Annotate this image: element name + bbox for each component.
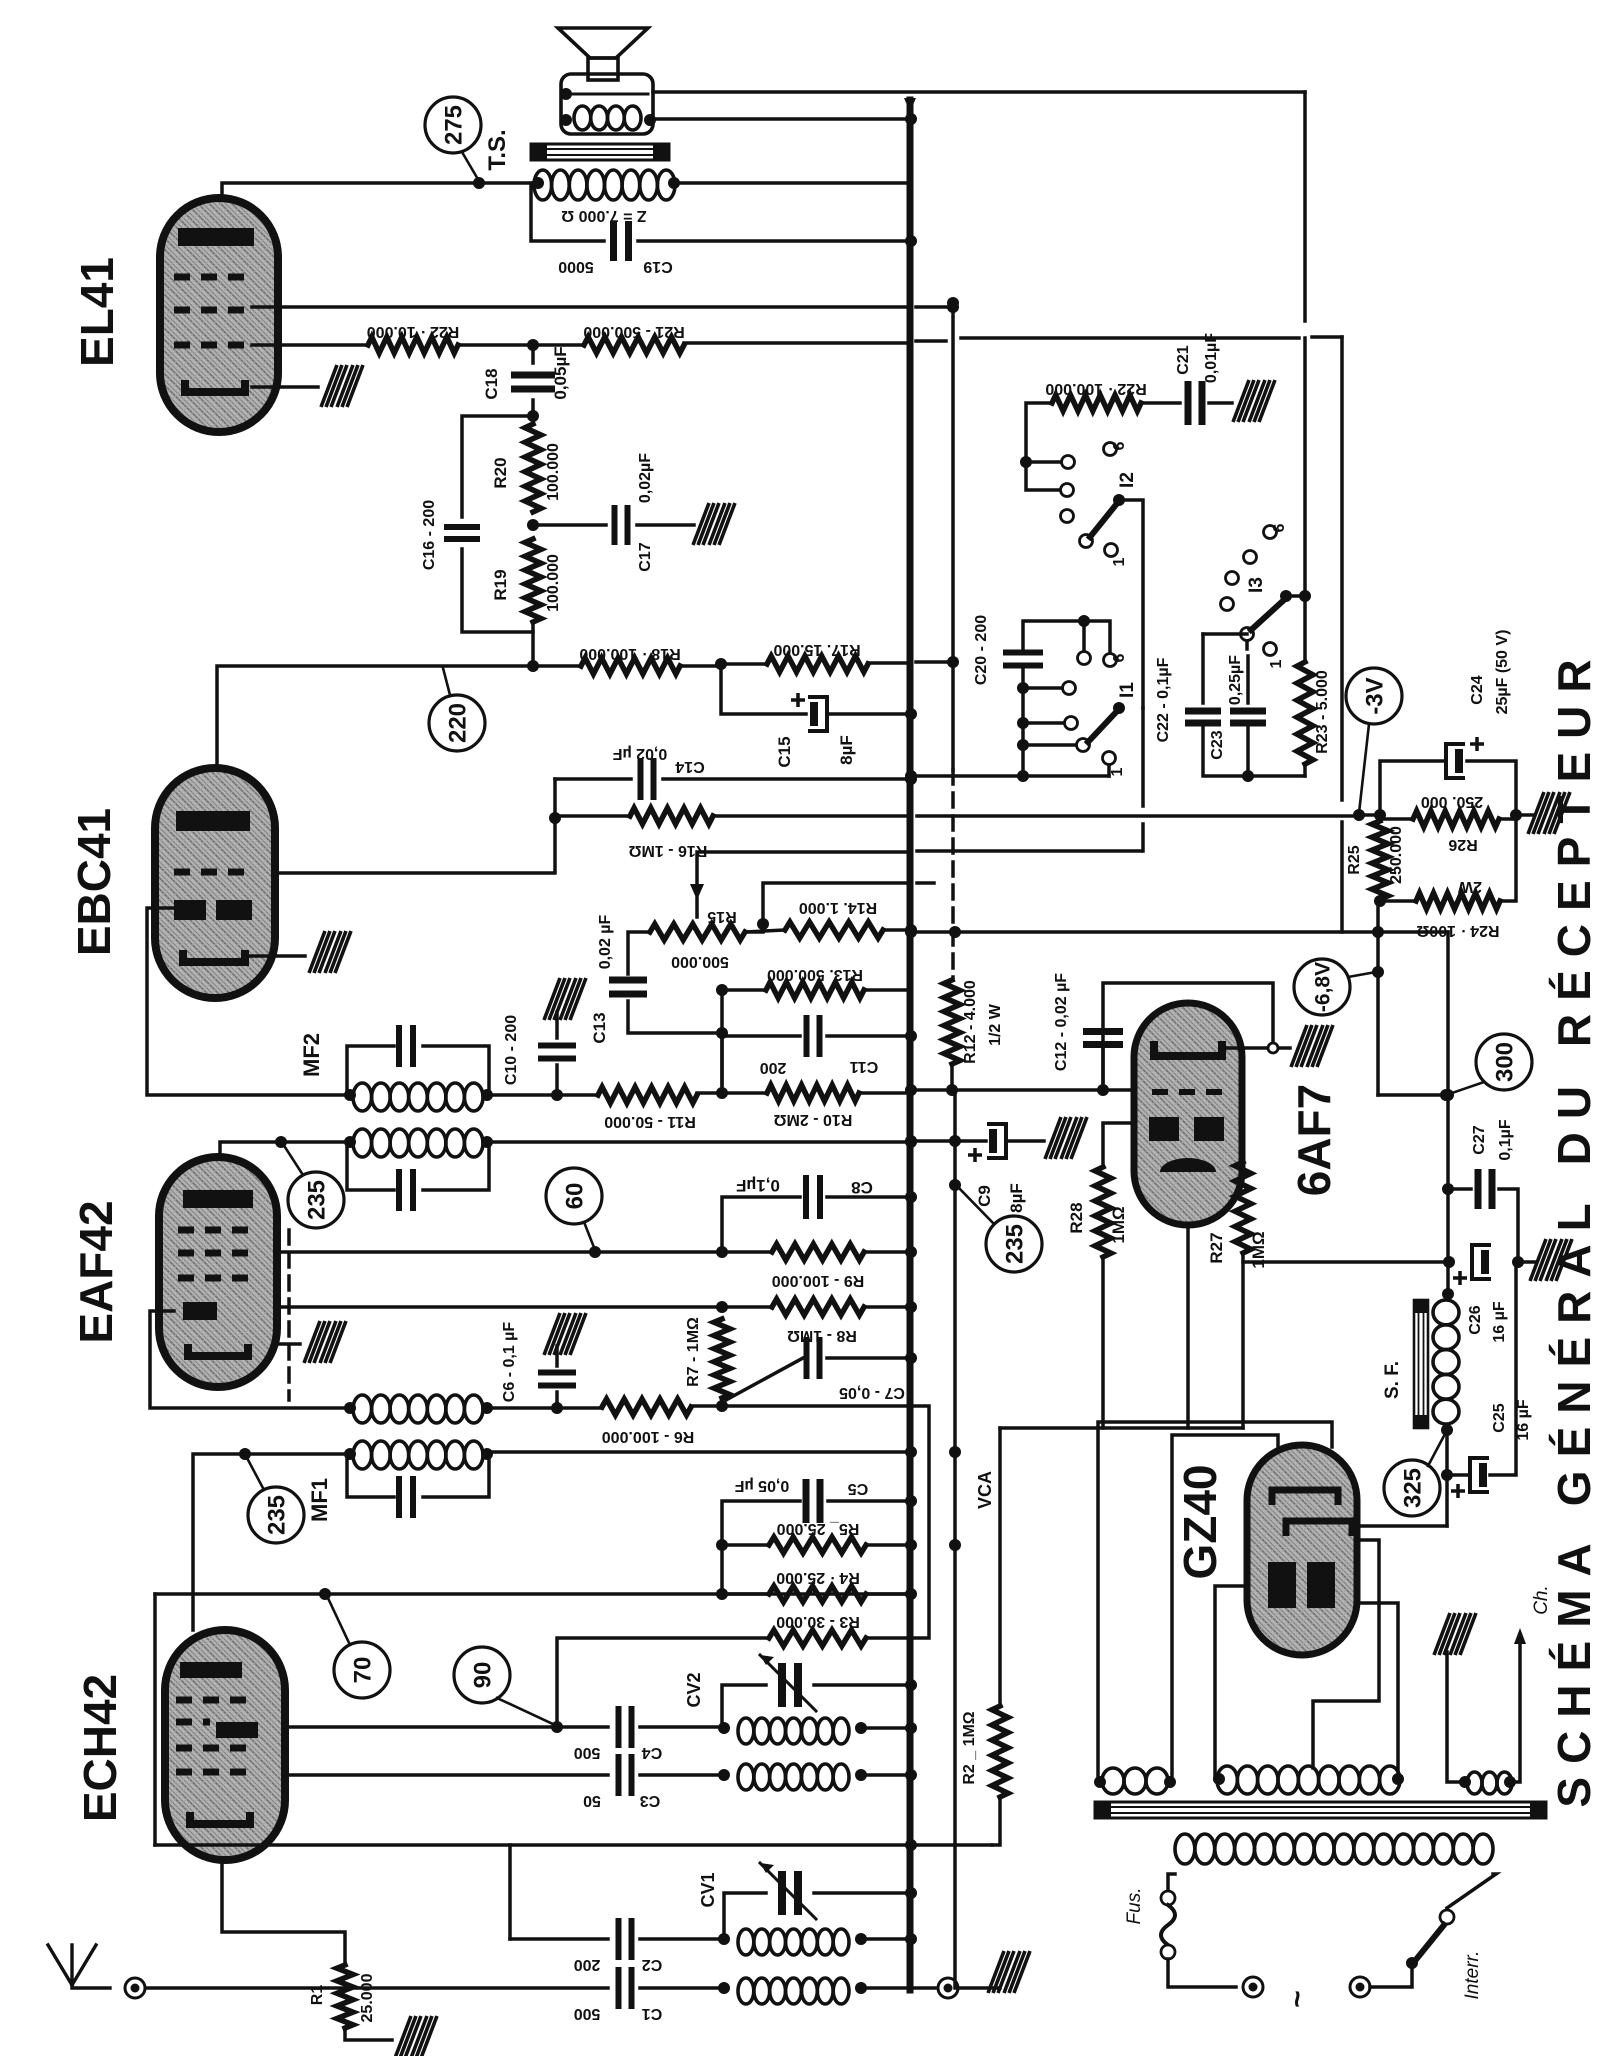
svg-text:R12 - 4.000: R12 - 4.000 [962,980,979,1064]
ground heater winding [1447,1652,1465,1782]
wire plate to ground [1222,1046,1290,1050]
chassis terminal [938,1978,958,1998]
capacitor C21 0,01uF [1185,381,1192,425]
resistor R28 1M [1103,1123,1134,1167]
svg-text:16 µF: 16 µF [1515,1399,1532,1440]
output transformer primary winding Z=7000 [534,170,552,200]
capacitor C4 500 [616,1706,622,1748]
wire corner to bias network [1340,337,1344,800]
resistor R14 1.000 [785,922,883,938]
oscillator coupling coil [738,1764,754,1790]
svg-text:EBC41: EBC41 [68,808,120,956]
svg-text:CV1: CV1 [698,1872,718,1907]
resistor R1 25.000 with ground [222,1860,345,1965]
svg-text:0,02 µF: 0,02 µF [597,914,614,969]
box top with C24 [1380,761,1444,815]
svg-text:6: 6 [1271,523,1288,532]
svg-text:1: 1 [1268,659,1285,668]
svg-text:C10 - 200: C10 - 200 [503,1015,520,1085]
svg-text:235: 235 [1002,1224,1029,1264]
capacitor C19 5000 [531,183,604,241]
svg-text:90: 90 [470,1662,497,1689]
svg-text:6: 6 [1111,441,1128,450]
wire bias row 816 from R16 to -3V node [917,814,1359,818]
node 325 circle [1384,1460,1440,1516]
IF transformer MF2 primary tank [353,1129,372,1157]
svg-text:C23: C23 [1209,730,1226,759]
ground filter rail [1518,1260,1536,1264]
svg-text:25µF (50 V): 25µF (50 V) [1494,630,1511,715]
wire EAF42 cathode to ground [277,1342,300,1346]
antenna coupling coil [738,1978,754,2004]
wire GZ40 cathode to S.F. [1356,1524,1447,1528]
wire EL41 screen grid [252,305,906,309]
capacitor C2 200 [510,1937,608,1941]
svg-text:Z = 7.000 Ω: Z = 7.000 Ω [561,207,646,224]
wire EBC41 cathode to ground [250,954,305,958]
heater winding radio tubes [1467,1772,1482,1794]
wire I1 down to wiper row [1141,708,1145,806]
node 235 voltage circle near EAF42 [288,1172,344,1228]
resistor R17 15.000 [767,656,868,672]
svg-text:300: 300 [1492,1042,1519,1082]
wire EAF42 anode to MF2 primary [220,1142,347,1157]
wire EAF42 diode to MF1 secondary [150,1311,347,1408]
resistor R18 100.000 [581,658,680,674]
resistor R27 1M [1240,1123,1243,1162]
node 60 voltage circle [546,1168,602,1224]
wire MF1 secondary to R6 [489,1406,602,1410]
output transformer T.S. core [531,144,669,160]
capacitor C25 16uF electrolytic [1445,1430,1449,1526]
VCA line [998,1428,1002,1706]
capacitor C16-200 [444,524,480,530]
svg-text:0,02µF: 0,02µF [637,453,654,503]
node 300 circle [1476,1034,1532,1090]
svg-text:R4 · 25.000: R4 · 25.000 [776,1569,860,1586]
wire speaker top to right vertical [653,90,1305,94]
node 235 voltage circle near C9 [986,1216,1042,1272]
svg-text:R15: R15 [707,908,736,925]
HV winding left lead [1215,1586,1247,1779]
switch I3 contacts [1264,526,1277,539]
svg-text:C3: C3 [640,1792,661,1809]
wire MF2 primary to bus [489,1140,911,1144]
wire speaker coil to bus [653,117,911,121]
svg-text:ECH42: ECH42 [74,1674,126,1822]
svg-text:Interr.: Interr. [1462,1951,1483,2000]
resistor R25 250.000 [1372,821,1388,899]
svg-text:25.000: 25.000 [359,1973,376,2022]
svg-text:I2: I2 [1117,472,1138,488]
resistor R2 1M AVC return [992,1797,1000,1845]
svg-text:6AF7: 6AF7 [1288,1084,1340,1196]
svg-text:C16 - 200: C16 - 200 [421,500,438,570]
right vertical feed wire [1303,92,1307,321]
HV secondary winding [1217,1766,1237,1794]
node -3V circle [1346,668,1402,724]
wire C2 branch [508,1845,512,1939]
wire 300V rail [1378,1093,1448,1097]
svg-text:60: 60 [562,1183,589,1210]
resistor R22 10.000 [368,337,458,353]
svg-text:GZ40: GZ40 [1174,1464,1226,1579]
node 275 voltage circle [425,97,481,153]
wire EL41 cathode to ground [252,385,318,389]
svg-text:16 µF: 16 µF [1491,1301,1508,1342]
svg-text:R23 - 5.000: R23 - 5.000 [1314,670,1331,754]
wire EAF42 g3 row [277,1305,722,1309]
wire EBC41 anode row [217,666,581,768]
svg-text:1: 1 [1111,557,1128,566]
svg-text:235: 235 [264,1495,291,1535]
svg-text:2W: 2W [1457,878,1482,895]
svg-text:R27: R27 [1207,1232,1226,1263]
svg-text:200: 200 [760,1059,787,1076]
svg-text:100.000: 100.000 [545,554,562,612]
wire screen feed 932 [911,930,1448,934]
svg-text:MF2: MF2 [299,1033,324,1077]
wire MF1 primary to oscillator grid row [489,1450,911,1454]
svg-text:I3: I3 [1246,577,1267,593]
tube EAF42 diode pentode [159,1157,277,1387]
svg-text:R10 - 2MΩ: R10 - 2MΩ [774,1111,853,1128]
resistor R26 250.000 [1413,811,1499,827]
node 6,8V circle [1294,959,1350,1015]
svg-text:C20 - 200: C20 - 200 [973,615,990,685]
fuse Fus. [1168,1874,1175,1890]
svg-text:R21 - 500.000: R21 - 500.000 [583,323,685,340]
svg-text:500: 500 [574,2005,601,2022]
svg-text:C26: C26 [1467,1305,1484,1334]
svg-text:S. F.: S. F. [1382,1361,1403,1399]
heater line vertical x953 [951,303,955,770]
switch I2 contacts [1020,456,1032,468]
svg-text:R17. 15.000: R17. 15.000 [773,641,860,658]
svg-text:C25: C25 [1491,1403,1508,1432]
svg-text:C12 - 0,02 µF: C12 - 0,02 µF [1053,973,1070,1071]
svg-text:VCA: VCA [975,1471,995,1509]
resistor R9 100.000 [772,1244,864,1260]
chassis arrow Ch. [1510,1640,1520,1782]
node 235 voltage circle near MF1 [248,1487,304,1543]
svg-text:250. 000: 250. 000 [1421,793,1483,810]
wire GZ40 anode loop A [1172,1435,1278,1782]
capacitor C7 0,05 diagonal feed [726,1358,803,1400]
wire I2 to I1 [1119,500,1143,708]
svg-text:0,05µF: 0,05µF [551,346,570,399]
loudspeaker [558,28,648,58]
ground EL41 cathode [321,365,363,407]
mains plug terminals [1243,1977,1263,1997]
antenna input [48,1945,110,1988]
ground chassis [988,1951,1030,1993]
svg-text:C24: C24 [1469,675,1486,704]
resistor R5 25.000 [769,1537,866,1553]
svg-text:I1: I1 [1117,682,1138,698]
HV winding right lead [1356,1603,1398,1779]
svg-text:8µF: 8µF [837,735,856,765]
capacitor C3 50 [616,1754,622,1796]
feedback network box R20 R19 C16 [462,416,533,517]
wire 6AF7 grid row [911,1088,1134,1092]
ground C17 [693,503,735,545]
svg-text:200: 200 [574,1956,601,1973]
resistor R8 1M [772,1299,864,1315]
svg-text:0,05 µF: 0,05 µF [734,1477,789,1494]
svg-text:500: 500 [574,1744,601,1761]
svg-text:-3V: -3V [1362,677,1389,714]
resistor R12 4.000 1/2W heater dropper [944,980,960,1064]
speaker frame box [561,74,653,134]
heater winding GZ40 [1102,1768,1124,1794]
svg-text:1MΩ: 1MΩ [1109,1206,1128,1243]
svg-text:SCHÉMA GÉNÉRAL DU RÉCEPTEUR: SCHÉMA GÉNÉRAL DU RÉCEPTEUR [1548,646,1600,1807]
resistor R11 50.000 [598,1087,697,1103]
wire R3 row to C4 node [557,1638,769,1727]
svg-text:T.S.: T.S. [484,129,511,170]
svg-text:R6 - 100.000: R6 - 100.000 [602,1428,695,1445]
resistor R19 100.000 [525,539,541,622]
resistor R23 5.000 [1303,596,1307,662]
capacitor C17 0,02uF to ground [533,523,606,527]
svg-text:C22 - 0,1µF: C22 - 0,1µF [1155,657,1172,742]
svg-text:Fus.: Fus. [1124,1888,1145,1925]
svg-text:C17: C17 [637,542,654,571]
svg-text:R11 - 50.000: R11 - 50.000 [604,1113,696,1130]
antenna tuned coil [738,1929,754,1955]
resistor R22 100.000 tone [1026,403,1052,462]
HV winding centre tap [1313,1540,1379,1768]
svg-text:C6 - 0,1 µF: C6 - 0,1 µF [501,1322,518,1403]
resistor R13 500.000 [722,988,766,992]
svg-text:R2 _ 1MΩ: R2 _ 1MΩ [961,1711,978,1784]
switch I2 arm [1090,501,1119,537]
wire EAF42 screen row with 60 volts [277,1250,595,1254]
svg-text:100.000: 100.000 [545,443,562,501]
IF transformer MF1 secondary tank [353,1395,372,1423]
main HT bus line [907,100,914,1990]
wire EL41 anode to output transformer [222,183,531,198]
capacitor C9 8uF [911,1139,986,1143]
svg-text:C13: C13 [590,1012,609,1043]
switch Interr. [1447,1874,1496,1908]
B+ 235 distribution line [953,1090,957,1988]
svg-text:C15: C15 [775,736,794,767]
svg-text:R19: R19 [491,569,510,600]
ground C21 [1233,380,1275,422]
wire EL41 control grid row [252,343,368,347]
ground C9 [1045,1117,1087,1159]
svg-text:0,01µF: 0,01µF [1203,333,1220,383]
capacitor C13 0,02uF [628,932,650,974]
svg-text:C21: C21 [1175,345,1192,374]
svg-text:0,02 µF: 0,02 µF [612,745,667,762]
capacitor C6 0,1uF to ground [544,1313,586,1355]
resistor R24 100 ohm 2W [1416,893,1500,909]
svg-text:C8: C8 [851,1178,873,1197]
svg-text:-6,8V: -6,8V [1312,962,1335,1012]
svg-text:C9: C9 [975,1185,994,1207]
node 90 voltage circle [454,1647,510,1703]
tube ECH42 top anode wire [193,1454,347,1630]
capacitor C1 500 [146,1986,608,1990]
svg-text:1: 1 [1109,767,1126,776]
volume control network: wire wiper row [697,852,911,917]
resistor R3 30.000 [769,1630,866,1646]
svg-text:8µF: 8µF [1007,1183,1026,1213]
capacitor C11 200 [722,1036,800,1093]
svg-text:R7 - 1MΩ: R7 - 1MΩ [685,1317,702,1387]
svg-text:~: ~ [1281,1990,1314,2008]
svg-text:R3 - 30.000: R3 - 30.000 [776,1613,860,1630]
mains primary winding [1175,1834,1195,1864]
wire 6AF7 plate loop [1103,983,1273,1090]
svg-text:MF1: MF1 [307,1478,332,1522]
svg-text:275: 275 [441,105,468,145]
wire grid bias line to -3V supply [684,341,906,345]
capacitor C14 0,02uF [555,777,631,781]
svg-text:R13. 500.000: R13. 500.000 [767,966,863,983]
svg-text:235: 235 [304,1180,331,1220]
tube 6AF7 magic eye [1134,1003,1242,1225]
svg-text:C1: C1 [642,2005,663,2022]
svg-text:R20: R20 [491,457,510,488]
wire EBC41 grid coupling row [274,779,555,873]
wire ECH42 triode grid to C4 [285,1725,608,1729]
svg-text:325: 325 [1400,1468,1427,1508]
wire 815 into box [1359,813,1380,817]
mains transformer core [1095,1802,1546,1818]
svg-text:6: 6 [1111,653,1128,662]
svg-text:0,25µF: 0,25µF [1227,655,1244,705]
capacitor C24 25uF 50V electrolytic [1446,744,1465,778]
node 70 voltage circle [334,1642,390,1698]
wire R24 junction down [1376,901,1380,1095]
oscillator coil [738,1718,754,1744]
svg-text:EL41: EL41 [71,257,123,367]
potentiometer R15 500.000 [650,924,745,940]
svg-text:C7 - 0,05: C7 - 0,05 [839,1384,905,1401]
switch I3 arm [1251,599,1285,630]
wire EBC41 diode to MF2 secondary [147,908,347,1095]
svg-text:C19: C19 [643,258,672,275]
svg-text:C11: C11 [850,1058,879,1075]
filter choke S.F. [1414,1300,1428,1428]
dashed internal shield line [287,1230,291,1400]
svg-text:C18: C18 [482,368,501,399]
svg-text:5000: 5000 [558,258,594,275]
svg-text:C27: C27 [1471,1125,1488,1154]
svg-text:C5: C5 [848,1480,869,1497]
svg-text:C2: C2 [642,1956,663,1973]
svg-text:R22 · 10.000: R22 · 10.000 [367,323,460,340]
resistor R20 100.000 [525,424,541,512]
capacitor C8 0,1uF [722,1197,800,1252]
wire transformer to bus [675,181,911,185]
svg-text:EAF42: EAF42 [70,1200,122,1343]
resistor R7 1M grid leak [714,1319,730,1398]
speaker voice coil [574,106,591,130]
svg-text:500.000: 500.000 [671,953,729,970]
svg-text:1/2 W: 1/2 W [987,1003,1004,1046]
tube ECH42 triode hexode [165,1630,285,1860]
svg-text:CV2: CV2 [684,1672,704,1707]
svg-text:R18 · 100.000: R18 · 100.000 [579,645,681,662]
svg-text:0,1µF: 0,1µF [1497,1119,1514,1160]
switch I1 arm [1088,709,1119,742]
resistor R4 25.000 [769,1586,866,1602]
svg-text:220: 220 [445,703,472,743]
resistor R16 1M [555,814,630,818]
wire 6AF7 cathode rail [1000,1426,1243,1430]
capacitor C15 8uF cathode bypass [721,664,806,714]
svg-text:R26: R26 [1448,836,1477,853]
svg-text:250.000: 250.000 [1388,826,1405,884]
svg-text:0,1µF: 0,1µF [736,1176,780,1195]
svg-text:C14: C14 [675,758,704,775]
node 220 voltage circle [429,695,485,751]
tube EL41 pentode [160,198,278,432]
AVC bracket wire around bus [911,1406,929,1638]
svg-text:R5_ 25.000: R5_ 25.000 [777,1520,860,1537]
tube EBC41 double diode triode [155,768,275,998]
resistor stack row C5 [722,1501,800,1545]
svg-text:R28: R28 [1067,1202,1086,1233]
svg-text:R25: R25 [1346,845,1363,874]
wire GZ40 anode loop B [1098,1422,1332,1782]
resistor R21 500.000 [584,337,684,353]
svg-text:R22 · 100.000: R22 · 100.000 [1045,380,1147,397]
wire MF2 secondary to R11 [489,1093,598,1097]
capacitor C18 0,05uF [531,345,535,363]
ground EBC41 cathode [309,931,351,973]
svg-text:C4: C4 [642,1744,663,1761]
wire rail to ground rail [1243,1260,1449,1264]
svg-text:70: 70 [350,1657,377,1684]
6AF7 target plate [1154,1041,1222,1056]
resistor R10 2M [767,1085,859,1101]
capacitor C26 16uF electrolytic [1472,1245,1491,1279]
tube GZ40 rectifier [1247,1445,1357,1655]
wire long row to R2 [155,1843,992,1847]
wire box left side [153,1594,157,1845]
wire osc anode feedback row 70 [155,1592,911,1596]
wire I1 common row [911,774,1109,778]
svg-text:50: 50 [583,1792,601,1809]
wire ECH42 hexode g1 to C3 [285,1773,608,1777]
resistor R6 100.000 [602,1399,691,1415]
ground R26 [1516,813,1534,817]
switch I1 contacts [1021,666,1025,776]
capacitor C27 0,1uF [1442,1183,1454,1195]
svg-text:R14. 1.000: R14. 1.000 [799,899,877,916]
svg-text:R9 - 100.000: R9 - 100.000 [772,1272,865,1289]
